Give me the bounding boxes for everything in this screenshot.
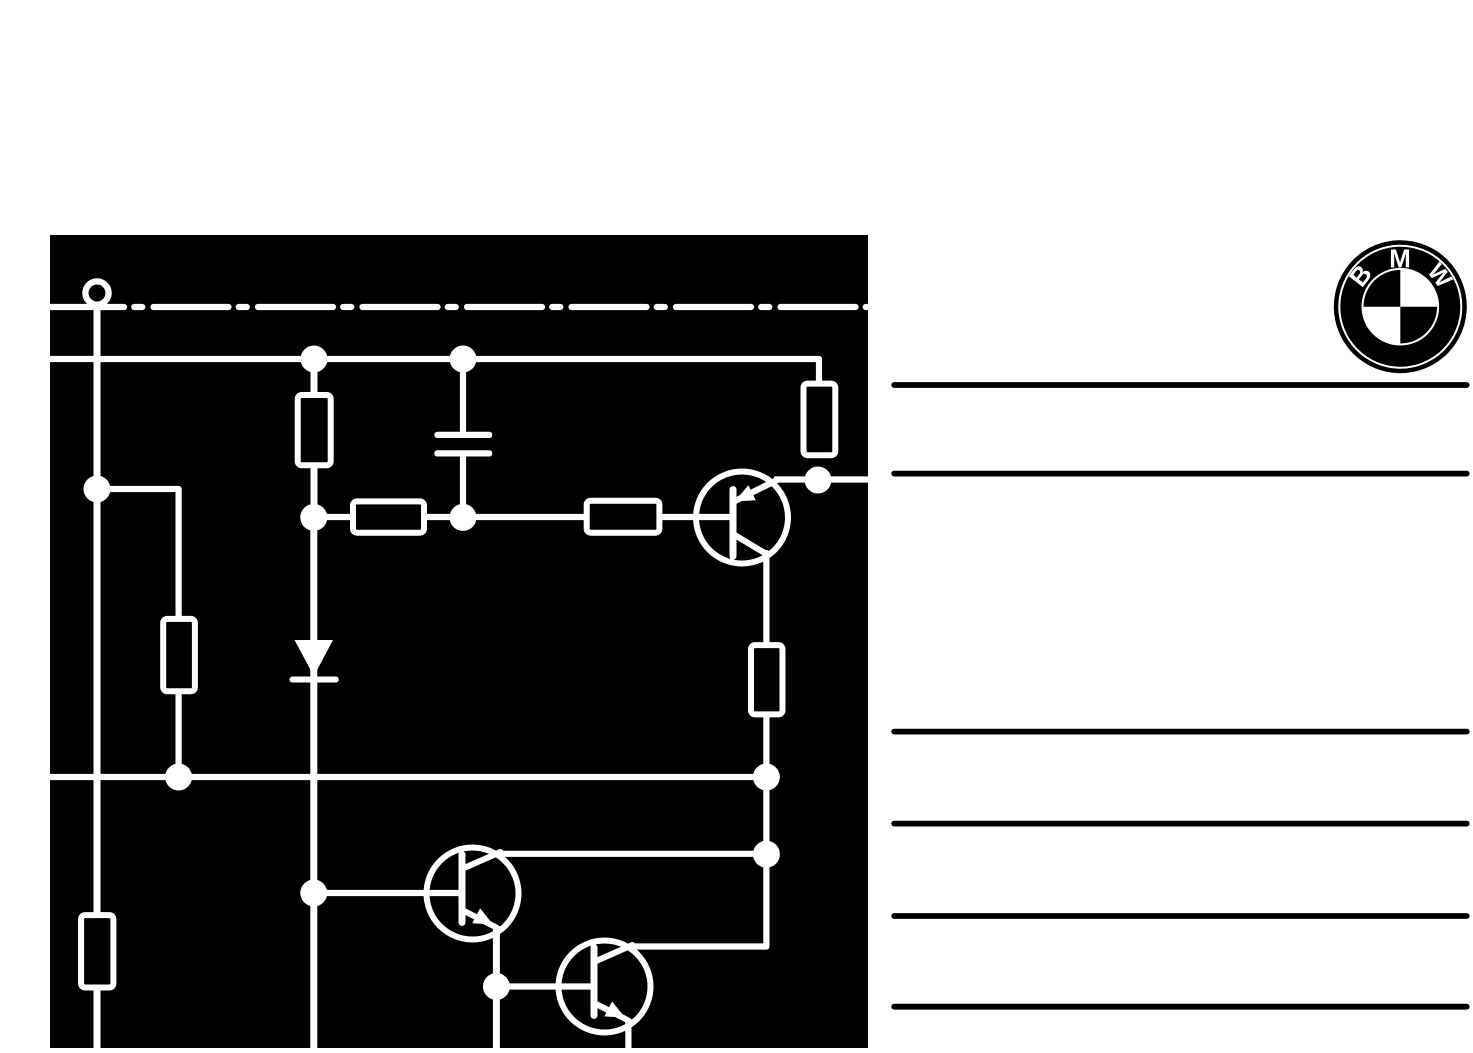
node dot ground right [753, 764, 780, 791]
wire R6 to ground rail [763, 713, 769, 777]
wire Q3 base [496, 983, 594, 989]
wire node B to R2 [314, 514, 354, 520]
node dot top rail left [301, 346, 328, 373]
schematic background panel [50, 235, 868, 1048]
wire Q2 base [314, 890, 462, 896]
wire ground rail [50, 774, 766, 780]
node dot collector rail [753, 841, 780, 868]
diode D1 [293, 640, 336, 680]
wire Q3 emitter down [625, 1019, 631, 1048]
transistor Q2 [427, 848, 519, 940]
ruled line 5 [894, 913, 1466, 919]
node dot C [450, 504, 477, 531]
wire node A to R4 [97, 489, 179, 618]
resistor R3 [804, 384, 836, 456]
wire C1 to node C [460, 457, 466, 518]
ruled line 6 [894, 1004, 1466, 1010]
wire R4 to ground rail [176, 692, 182, 777]
wire R1 to node B [311, 466, 318, 517]
resistor R1 [298, 395, 331, 465]
ruled line 4 [894, 821, 1466, 827]
BMW logo [1334, 240, 1467, 373]
wire left vertical bus [94, 303, 101, 1048]
ruled line 1 [894, 382, 1466, 388]
node dot A [84, 476, 111, 503]
resistor R7 [587, 501, 660, 533]
ruled line 3 [894, 729, 1466, 735]
wire mid vertical through diode [310, 517, 317, 1048]
resistor R6 [751, 645, 783, 714]
wire supply rail top [50, 359, 819, 384]
node dot Q2 base [300, 880, 327, 907]
resistor R5 [81, 915, 113, 987]
terminal post [85, 281, 108, 304]
ruled line 2 [894, 471, 1466, 477]
wire Q1 emitter out [774, 476, 868, 482]
transistor Q1 [696, 472, 788, 564]
chassis dash-dot line [49, 304, 868, 310]
node dot Q1 emitter [805, 467, 832, 494]
wire dot to R1 [311, 359, 318, 395]
wire Q2 emitter down [493, 926, 500, 1048]
node dot top rail right [450, 346, 477, 373]
wire R2 to node C [423, 514, 463, 520]
resistor R2 [353, 501, 424, 532]
node dot B [300, 504, 327, 531]
node dot Q3 base [483, 973, 510, 1000]
wire right vertical down to Q3 collector [630, 777, 766, 947]
wire node C to R7 [463, 514, 588, 520]
wire R7 to Q1 base [658, 514, 733, 520]
node dot ground left [165, 764, 192, 791]
resistor R4 [163, 619, 195, 691]
wire Q2 collector rail [500, 851, 766, 857]
wire node top to C1 [460, 359, 466, 432]
wire Q1 collector to R6 [763, 553, 769, 646]
capacitor C1 [437, 435, 489, 454]
transistor Q3 [559, 941, 651, 1033]
